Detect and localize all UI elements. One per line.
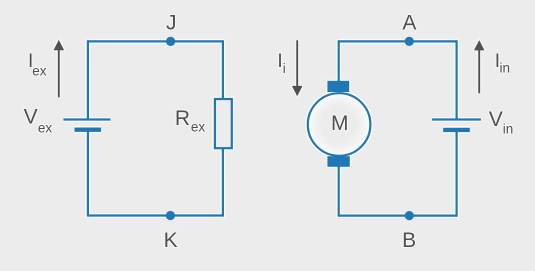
wire: right loop right side lower (from Vin) bbox=[456, 130, 458, 217]
svg-text:i: i bbox=[283, 61, 286, 76]
wire: right loop top (A wire) bbox=[339, 40, 457, 42]
wire: left loop left side upper (to Vex) bbox=[87, 40, 89, 119]
node A dot bbox=[405, 37, 414, 46]
node B dot bbox=[405, 211, 414, 220]
wire: left loop bottom (K wire) bbox=[88, 214, 223, 216]
wire: left loop left side lower (from Vex) bbox=[87, 130, 89, 217]
motor M body circle bbox=[308, 93, 371, 156]
node K dot bbox=[166, 211, 175, 220]
wire: right loop left side upper (to motor) bbox=[338, 40, 340, 82]
wire: right loop bottom (B wire) bbox=[339, 215, 457, 217]
arrow Iex (excitation current, points up) bbox=[54, 40, 65, 97]
battery Vin positive plate (long thin) bbox=[432, 118, 481, 120]
battery Vex negative plate (short thick) bbox=[75, 127, 102, 131]
svg-text:ex: ex bbox=[38, 120, 53, 135]
wire: right loop left side lower (from motor) bbox=[338, 165, 340, 217]
svg-text:K: K bbox=[164, 229, 178, 252]
svg-text:in: in bbox=[500, 61, 511, 76]
svg-text:M: M bbox=[331, 112, 349, 135]
arrow Ii (armature current, points down) bbox=[292, 40, 303, 96]
svg-text:R: R bbox=[175, 107, 190, 130]
battery Vex positive plate (long thin) bbox=[63, 118, 110, 120]
resistor Rex body bbox=[215, 99, 232, 148]
wire: left loop right side lower (from Rex) bbox=[222, 148, 224, 217]
svg-text:in: in bbox=[503, 122, 514, 137]
wire: left loop top (J wire) bbox=[88, 40, 223, 42]
svg-text:J: J bbox=[166, 12, 177, 35]
motor M top brush terminal bbox=[327, 81, 349, 92]
motor M bottom brush terminal bbox=[327, 156, 349, 167]
node J dot bbox=[166, 37, 175, 46]
wire: left loop right side upper (to Rex) bbox=[222, 40, 224, 99]
svg-text:ex: ex bbox=[32, 63, 47, 78]
wire halo casing layer (white glow under all blue strokes) bbox=[63, 40, 481, 218]
battery Vin negative plate (short thick) bbox=[443, 128, 470, 132]
svg-text:V: V bbox=[24, 106, 38, 129]
svg-text:B: B bbox=[402, 229, 416, 252]
svg-text:ex: ex bbox=[191, 120, 206, 135]
arrow Iin (input current, points up) bbox=[474, 40, 485, 93]
svg-text:A: A bbox=[402, 12, 416, 35]
svg-text:V: V bbox=[489, 108, 503, 131]
wire: right loop right side upper (to Vin) bbox=[456, 40, 458, 119]
